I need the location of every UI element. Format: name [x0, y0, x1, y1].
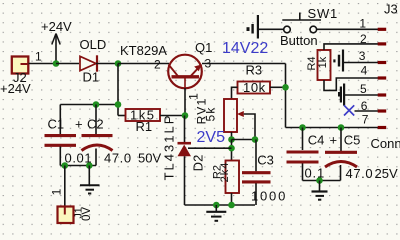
power +24V symbol — [41, 19, 72, 64]
bottom rail — [185, 204, 256, 206]
capacitor C5 (polarized) — [325, 128, 398, 181]
svg-text:C4: C4 — [308, 133, 325, 148]
svg-text:1: 1 — [359, 17, 366, 31]
capacitor C2 (polarized) — [82, 105, 162, 166]
svg-text:D2: D2 — [191, 155, 206, 172]
svg-text:KT829A: KT829A — [120, 43, 167, 58]
ground near C2 — [80, 166, 100, 194]
svg-text:Button: Button — [280, 33, 318, 48]
wire R3 left to RV1 top — [232, 87, 238, 99]
junction wiper drop — [252, 136, 259, 143]
svg-text:0.1: 0.1 — [305, 165, 325, 180]
ground right — [312, 181, 328, 200]
ground mid — [206, 205, 226, 221]
transistor Q1 — [120, 40, 212, 100]
wire R1 to base junction — [160, 115, 185, 117]
J3 pin 2 wire from R4 top — [324, 32, 386, 50]
svg-text:4: 4 — [361, 64, 368, 78]
TL431 D2 — [162, 114, 206, 181]
svg-text:R1: R1 — [136, 119, 153, 134]
svg-text:47.0: 47.0 — [104, 151, 132, 166]
wire down to ref junction — [231, 140, 233, 161]
capacitor C3 — [242, 140, 287, 206]
svg-text:D1: D1 — [83, 70, 100, 85]
svg-text:1000: 1000 — [251, 189, 287, 204]
resistor R3 — [238, 63, 271, 96]
junction RV1 bottom — [228, 136, 235, 143]
svg-text:2: 2 — [154, 58, 161, 72]
junction C2 tap — [93, 101, 100, 108]
J3 pin 6 no-connect — [344, 99, 386, 115]
svg-text:2k4: 2k4 — [219, 162, 231, 183]
svg-text:47.0: 47.0 — [346, 166, 374, 181]
wire C1 to C2 bottom — [60, 165, 96, 167]
wire cap rail to C1 — [60, 104, 118, 106]
svg-text:3: 3 — [359, 49, 366, 63]
J3 pin 7 stub — [378, 126, 387, 129]
junction ref/R2 — [228, 145, 235, 152]
wire C4 to C5 bottom — [303, 180, 341, 182]
wire RV1 bottom to wiper drop — [232, 139, 256, 141]
junction ground right — [316, 177, 323, 184]
svg-text:C2: C2 — [87, 117, 104, 132]
svg-text:OLD: OLD — [80, 37, 107, 52]
svg-text:R3: R3 — [246, 63, 263, 78]
wire junction to D1 anode — [56, 63, 79, 65]
svg-text:+24V: +24V — [0, 81, 31, 96]
junction at D1/Q1/C-rail — [115, 60, 122, 67]
junction R2 bottom — [228, 202, 235, 209]
junction J1 tap — [62, 162, 69, 169]
wire J2 to junction — [29, 63, 57, 65]
svg-text:C1: C1 — [48, 117, 65, 132]
wire Q1 base down to R1 junction — [184, 88, 186, 116]
wire junction down to cap rail — [117, 64, 119, 116]
svg-text:+: + — [330, 133, 338, 148]
junction at +24V tap — [53, 60, 60, 67]
connector J2 — [0, 57, 31, 97]
Q1 emitter wire to right column — [202, 63, 286, 65]
wire to J1 — [64, 166, 66, 207]
connector J1 — [58, 207, 94, 224]
R2 bottom lead — [231, 193, 233, 205]
svg-text:2V5: 2V5 — [197, 129, 226, 146]
diode D1 — [80, 37, 107, 85]
wire right column down — [285, 64, 287, 128]
wire D1 cathode to junction — [96, 63, 118, 65]
svg-text:+: + — [75, 117, 83, 132]
svg-text:2: 2 — [360, 32, 367, 46]
junction C5 — [338, 124, 345, 131]
capacitor C4 — [287, 128, 338, 181]
svg-text:7: 7 — [362, 113, 369, 127]
J3 pin 3 jack contact — [333, 49, 386, 72]
svg-text:0V: 0V — [81, 207, 93, 221]
svg-text:+24V: +24V — [41, 19, 72, 34]
svg-text:Conn: Conn — [371, 136, 400, 151]
svg-text:SW1: SW1 — [308, 6, 339, 21]
wire R3 right to feedback line — [270, 86, 286, 88]
svg-text:TL431LP: TL431LP — [162, 114, 177, 181]
svg-text:14V22: 14V22 — [222, 40, 268, 57]
svg-text:5k: 5k — [204, 106, 218, 121]
J3 pin 4 wire from R4 bottom — [324, 64, 386, 91]
junction ground mid — [213, 202, 220, 209]
svg-text:6: 6 — [361, 99, 368, 113]
wire ref to TL431 — [188, 147, 232, 149]
junction cap rail — [115, 101, 122, 108]
junction C4 — [299, 124, 306, 131]
rail C4/C5 to J3 pin 7 — [286, 127, 379, 129]
svg-text:50V: 50V — [138, 151, 161, 166]
TL431 anode wire down — [184, 156, 186, 205]
svg-text:1: 1 — [35, 50, 42, 64]
resistor R4 — [306, 50, 331, 80]
capacitor C1 — [45, 105, 93, 166]
junction R3/feedback — [282, 84, 289, 91]
J3 pin 5 jack contact — [338, 82, 386, 106]
junction ground tap — [86, 162, 93, 169]
wiper wire to drop — [244, 114, 255, 140]
resistor R2 — [212, 161, 240, 194]
svg-text:10k: 10k — [243, 80, 266, 95]
svg-text:5: 5 — [360, 82, 367, 96]
switch SW1 — [247, 6, 339, 48]
wire junction to Q1 collector — [118, 63, 169, 65]
J3 pin 1 — [317, 17, 387, 31]
resistor R1 — [126, 108, 161, 135]
potentiometer RV1 — [195, 98, 244, 132]
wire down to R1 level — [118, 115, 126, 117]
junction base/R1/D2 — [182, 112, 189, 119]
svg-text:1k: 1k — [317, 56, 329, 68]
svg-text:Q1: Q1 — [195, 40, 212, 55]
svg-text:J3: J3 — [384, 2, 398, 17]
RV1 bottom lead — [231, 132, 233, 140]
svg-text:C5: C5 — [344, 133, 361, 148]
svg-text:C3: C3 — [257, 152, 274, 167]
svg-text:25V: 25V — [375, 166, 398, 181]
svg-text:1: 1 — [50, 188, 64, 195]
